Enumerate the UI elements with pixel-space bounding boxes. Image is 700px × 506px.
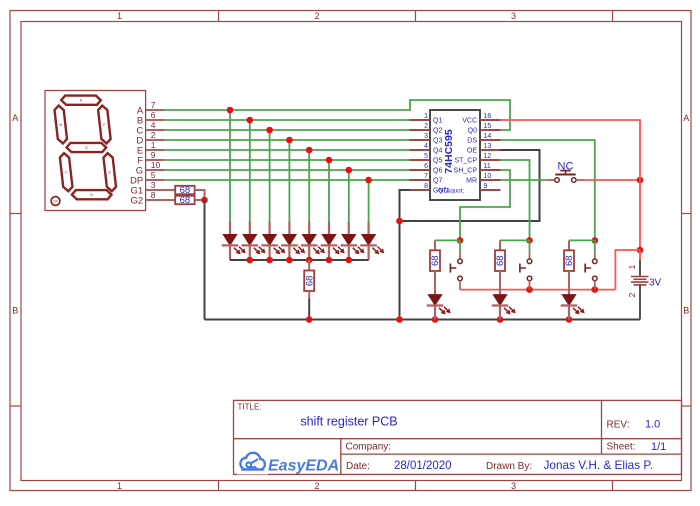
battery BT1 3V — [627, 250, 662, 320]
junction dot cathode bus — [326, 257, 333, 264]
wire SH_CP to button 1 node — [460, 170, 510, 240]
svg-text:6: 6 — [151, 110, 156, 120]
junction dot row drop 7 — [346, 167, 353, 174]
wire DS to button 3 node — [501, 140, 595, 240]
svg-text:1: 1 — [117, 481, 122, 491]
wire G common to ground bus — [204, 200, 206, 320]
junction dot row drop 1 — [227, 107, 234, 114]
resistor 68 (LED bus) — [304, 260, 315, 299]
display pin D (2) — [136, 130, 164, 146]
junction dot button bus 2 — [526, 286, 533, 293]
svg-text:E: E — [109, 171, 112, 175]
title block — [234, 400, 682, 474]
svg-text:Company:: Company: — [346, 442, 392, 453]
junction dot row drop 4 — [286, 137, 293, 144]
svg-text:ST_CP: ST_CP — [454, 158, 477, 165]
wire segment G row — [165, 169, 410, 171]
wire button bus — [460, 289, 615, 291]
svg-text:1: 1 — [627, 264, 637, 269]
U1 pin 5 Q5 — [410, 153, 443, 165]
resistor 68 group 1 (SH_CP) — [430, 240, 441, 288]
junction dot cathode bus — [346, 257, 353, 264]
LED D7 — [341, 222, 364, 261]
svg-text:G2: G2 — [131, 195, 144, 206]
junction dot row drop 3 — [266, 127, 273, 134]
svg-text:3V: 3V — [649, 278, 662, 289]
junction dot cathode bus — [306, 257, 313, 264]
U1 pin 8 GND — [410, 183, 449, 195]
wire drop to LED6 — [328, 160, 330, 222]
U1 pin 10 MR — [466, 173, 500, 185]
svg-text:13: 13 — [484, 143, 492, 150]
wire drop to LED2 — [249, 120, 251, 222]
wire drop to LED8 — [368, 180, 370, 222]
svg-text:2: 2 — [627, 292, 637, 297]
display pin DP (5) — [130, 170, 165, 186]
resistor 68 group 2 (ST_CP) — [495, 240, 506, 288]
segment D — [72, 190, 112, 199]
wire node to resistor group 2 (ST_CP) — [500, 239, 530, 241]
LED D2 — [242, 222, 265, 261]
svg-text:4: 4 — [424, 143, 428, 150]
junction dot ground bus — [306, 316, 313, 323]
junction dot ground bus — [566, 316, 573, 323]
junction dot GND — [396, 218, 403, 225]
U1 pin 6 Q6 — [410, 163, 443, 175]
push button group 3 (DS) — [585, 240, 597, 289]
segment E — [104, 153, 117, 191]
wire segment E row — [165, 149, 410, 151]
svg-text:1/1: 1/1 — [651, 441, 666, 453]
wire drop to LED1 — [229, 110, 231, 222]
svg-text:VCC: VCC — [462, 118, 477, 125]
svg-text:A: A — [80, 99, 83, 103]
wire NC to VCC rail — [584, 179, 640, 181]
svg-text:Q0: Q0 — [468, 128, 477, 135]
segment G — [67, 143, 107, 152]
svg-text:9: 9 — [151, 150, 156, 160]
display pin A (7) — [137, 100, 165, 116]
wire ST_CP to button 2 node — [501, 160, 530, 240]
display pin C (4) — [136, 120, 164, 136]
U1 pin 15 Q0 — [468, 123, 501, 135]
svg-text:8: 8 — [151, 190, 156, 200]
U1 pin 1 Q1 — [410, 113, 443, 125]
wire segment A to Q0 (over IC) — [165, 100, 510, 130]
junction dot button bus 3 — [592, 286, 599, 293]
U1 pin 9 Q7quote — [480, 183, 501, 190]
display pin G2 (8) — [131, 190, 165, 206]
svg-text:7: 7 — [151, 100, 156, 110]
svg-text:2: 2 — [424, 123, 428, 130]
svg-text:68: 68 — [564, 255, 575, 266]
display pin E (1) — [137, 140, 165, 156]
svg-text:Q5: Q5 — [433, 158, 442, 165]
svg-text:Q3: Q3 — [433, 138, 442, 145]
svg-text:A: A — [12, 113, 18, 123]
U1 pin 4 Q4 — [410, 143, 443, 155]
svg-text:1: 1 — [151, 140, 156, 150]
svg-text:8: 8 — [424, 183, 428, 190]
svg-text:D: D — [90, 193, 93, 197]
svg-text:Date:: Date: — [346, 461, 370, 472]
junction dot ground bus — [432, 316, 439, 323]
svg-text:B: B — [683, 306, 689, 316]
U1 pin 13 OE — [467, 143, 501, 155]
svg-text:4: 4 — [151, 120, 156, 130]
wire segment DP row — [165, 179, 410, 181]
wire ground bus — [205, 319, 641, 321]
junction dot VCC rail / battery — [637, 247, 644, 254]
display pin G1 (3) — [131, 180, 165, 196]
svg-text:Q7: Q7 — [433, 178, 442, 185]
wire segment B row — [165, 119, 410, 121]
svg-text:68: 68 — [180, 195, 191, 206]
svg-text:Jonas V.H. & Elias P.: Jonas V.H. & Elias P. — [544, 458, 654, 472]
U1 pin 12 ST_CP — [454, 153, 500, 165]
display pin B (6) — [137, 110, 165, 126]
svg-text:REV:: REV: — [607, 420, 630, 431]
wire node to resistor group 1 (SH_CP) — [435, 239, 460, 241]
svg-text:14: 14 — [484, 133, 492, 140]
junction dot VCC rail / NC — [637, 177, 644, 184]
junction dot node group 1 (SH_CP) — [457, 237, 464, 244]
junction dot cathode bus — [286, 257, 293, 264]
svg-text:68: 68 — [304, 276, 315, 287]
junction dot node group 3 (DS) — [592, 237, 599, 244]
svg-text:DP: DP — [53, 199, 57, 203]
svg-text:shift register PCB: shift register PCB — [300, 415, 397, 429]
svg-text:10: 10 — [151, 160, 161, 170]
LED D2 (ST_CP) — [492, 289, 515, 320]
resistor 68 (G2) — [165, 195, 205, 206]
U1 pin 14 DS — [467, 133, 500, 145]
svg-text:5: 5 — [151, 170, 156, 180]
junction dot cathode bus — [247, 257, 254, 264]
svg-text:28/01/2020: 28/01/2020 — [394, 460, 452, 472]
U1 pin 16 VCC — [462, 113, 500, 125]
svg-text:6: 6 — [424, 163, 428, 170]
junction dot G1/G2 — [201, 197, 208, 204]
push button group 1 (SH_CP) — [450, 240, 462, 289]
EasyEDA logo — [237, 453, 339, 475]
LED D5 — [301, 222, 324, 261]
push button group 2 (ST_CP) — [520, 240, 532, 289]
wire drop to LED5 — [308, 150, 310, 222]
switch NC — [546, 160, 584, 182]
wire drop to LED4 — [288, 140, 290, 222]
svg-text:16: 16 — [484, 113, 492, 120]
resistor 68 (G1) — [165, 185, 205, 200]
svg-text:Q7&quot;: Q7&quot; — [438, 188, 464, 195]
junction dot node group 2 (ST_CP) — [526, 237, 533, 244]
svg-text:12: 12 — [484, 153, 492, 160]
svg-text:3: 3 — [511, 481, 516, 491]
svg-text:C: C — [65, 171, 68, 175]
svg-text:11: 11 — [484, 163, 491, 170]
decimal point DP — [51, 197, 60, 206]
wire drop to LED7 — [348, 170, 350, 222]
svg-text:3: 3 — [424, 133, 428, 140]
U1 pin 2 Q2 — [410, 123, 443, 135]
junction dot cathode bus — [266, 257, 273, 264]
U1 pin 7 Q7 — [410, 173, 443, 185]
svg-text:1.0: 1.0 — [645, 419, 660, 431]
segment C — [60, 153, 73, 191]
wire segment D row — [165, 139, 410, 141]
svg-text:2: 2 — [314, 481, 319, 491]
segment F — [98, 106, 110, 144]
svg-text:Sheet:: Sheet: — [607, 442, 636, 453]
svg-text:68: 68 — [430, 255, 441, 266]
LED D1 — [222, 222, 245, 261]
op-amp-style IC U1 74HC595 — [430, 110, 480, 200]
junction dot row drop 8 — [365, 177, 372, 184]
svg-text:A: A — [683, 113, 689, 123]
wire LED cathode bus — [230, 259, 369, 261]
svg-text:Q1: Q1 — [433, 118, 442, 125]
wire GND pin8 to OE and ground bus — [400, 150, 540, 320]
svg-text:Q4: Q4 — [433, 148, 442, 155]
svg-text:Q6: Q6 — [433, 168, 442, 175]
LED D8 — [360, 222, 383, 261]
wire drop to LED3 — [269, 130, 271, 222]
svg-text:Drawn By:: Drawn By: — [486, 461, 532, 472]
junction dot row drop 2 — [247, 117, 254, 124]
wire segment F row — [165, 159, 410, 161]
svg-text:DS: DS — [467, 138, 477, 145]
svg-text:5: 5 — [424, 153, 428, 160]
wire segment C row — [165, 129, 410, 131]
wire VCC rail to button bus — [615, 250, 640, 290]
svg-text:2: 2 — [151, 130, 156, 140]
svg-text:2: 2 — [314, 11, 319, 21]
svg-text:3: 3 — [511, 11, 516, 21]
wire resistor to ground bus — [308, 299, 310, 320]
U1 pin 11 SH_CP — [454, 163, 501, 175]
wire MR to NC switch — [501, 179, 547, 181]
U1 pin 3 Q3 — [410, 133, 443, 145]
wire node to resistor group 3 (DS) — [569, 239, 595, 241]
segment B — [55, 106, 67, 144]
svg-text:68: 68 — [495, 255, 506, 266]
svg-text:B: B — [60, 123, 63, 127]
svg-text:G: G — [85, 146, 88, 150]
junction dot row drop 6 — [326, 157, 333, 164]
svg-text:OE: OE — [467, 148, 477, 155]
svg-text:TITLE:: TITLE: — [238, 403, 262, 412]
LED D3 — [261, 222, 284, 261]
LED D4 — [281, 222, 304, 261]
junction dot row drop 5 — [306, 147, 313, 154]
LED D6 — [321, 222, 344, 261]
svg-text:SH_CP: SH_CP — [454, 168, 478, 175]
svg-text:B: B — [12, 306, 18, 316]
svg-text:3: 3 — [151, 180, 156, 190]
junction dot ground bus — [497, 316, 504, 323]
svg-text:1: 1 — [424, 113, 428, 120]
resistor 68 group 3 (DS) — [564, 240, 575, 288]
svg-text:MR: MR — [466, 178, 477, 185]
svg-text:1: 1 — [117, 11, 122, 21]
svg-text:7: 7 — [424, 173, 428, 180]
segment A — [61, 96, 101, 105]
display pin F (9) — [137, 150, 164, 166]
wire VCC pin16 to rail — [501, 120, 641, 250]
svg-text:9: 9 — [484, 183, 488, 190]
LED D1 (SH_CP) — [427, 289, 450, 320]
svg-text:15: 15 — [484, 123, 492, 130]
7-segment display DS1 — [45, 91, 146, 211]
svg-text:EasyEDA: EasyEDA — [268, 457, 339, 474]
svg-text:10: 10 — [484, 173, 492, 180]
svg-text:Q2: Q2 — [433, 128, 442, 135]
display pin G (10) — [136, 160, 165, 176]
junction dot ground bus — [396, 316, 403, 323]
LED D3 (DS) — [561, 289, 584, 320]
